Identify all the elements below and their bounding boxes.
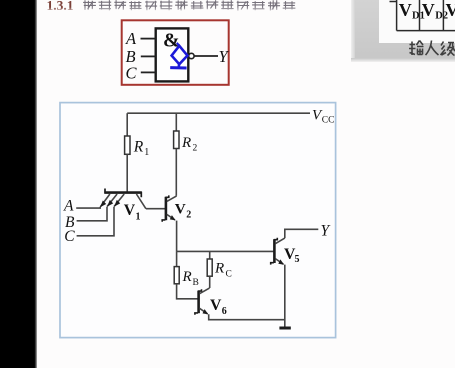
blue border box (60, 103, 336, 338)
svg-text:R: R (214, 261, 224, 277)
svg-text:V: V (175, 200, 186, 217)
svg-text:CC: CC (322, 116, 335, 126)
label V5 (284, 246, 300, 265)
wire phase-splitter node rail (177, 250, 275, 252)
wire V2 emitter down (176, 221, 178, 252)
label R2 (181, 135, 198, 154)
blue pen cursor annotation (170, 43, 187, 68)
svg-text:2: 2 (193, 144, 198, 154)
transistor V5 (271, 238, 285, 265)
svg-text:R: R (133, 139, 144, 156)
gate input wire A (141, 38, 156, 40)
svg-text:1: 1 (144, 147, 149, 158)
inset label VD1 (399, 0, 455, 22)
transistor V1 (multi-emitter) (100, 189, 146, 209)
gate input wire B (141, 55, 156, 57)
label RC (214, 261, 232, 280)
label Vcc (312, 108, 334, 126)
top-right inset: white diagram area (379, 0, 455, 43)
svg-text:C: C (226, 269, 232, 279)
wire Vcc rail (127, 112, 310, 114)
wire RC top lead (209, 251, 211, 259)
wire R2 top lead (175, 113, 177, 131)
red highlight rectangle (122, 20, 229, 85)
wire V1 collector to V2 base (146, 208, 165, 210)
wire input B (77, 207, 107, 221)
svg-text:V: V (124, 202, 136, 219)
title fake CJK glyph strokes (cropped heading characters) (83, 0, 295, 11)
label V6 (210, 297, 227, 317)
gate input wire C (141, 71, 156, 73)
svg-text:C: C (64, 228, 75, 245)
svg-text:6: 6 (222, 306, 227, 317)
svg-text:R: R (182, 269, 192, 285)
wire V5 emitter down (284, 265, 286, 327)
gate body rectangle (156, 28, 189, 81)
svg-text:1: 1 (136, 211, 141, 222)
inset diode box grid lines (390, 0, 455, 31)
svg-text:B: B (193, 278, 199, 288)
top-right inset: gray panel (351, 0, 455, 60)
resistor R1 (125, 136, 130, 154)
wire RB bottom to V6 base (177, 284, 198, 299)
svg-text:V: V (210, 297, 222, 314)
ground (279, 327, 290, 330)
resistor RC (207, 259, 212, 276)
wire RC bottom to V6 collector (209, 276, 211, 288)
title bottom fade (38, 7, 310, 14)
wire input A (76, 207, 100, 208)
left black sidebar (0, 0, 37, 368)
wire V5 collector to output Y (285, 229, 319, 238)
inset caption "shu ru ji" (fake glyphs) (409, 41, 455, 56)
wire R1 bottom lead (126, 154, 128, 191)
label R1 (133, 139, 150, 159)
svg-text:R: R (181, 135, 191, 151)
svg-text:2: 2 (186, 210, 191, 221)
svg-text:Y: Y (321, 223, 331, 240)
wire R1 top lead (126, 113, 128, 136)
label V2 (175, 200, 191, 220)
transistor V6 (195, 288, 210, 315)
resistor RB (174, 267, 179, 284)
wire R2 bottom lead (175, 149, 177, 196)
label RB (182, 269, 199, 288)
svg-text:5: 5 (295, 254, 300, 265)
inverter bubble (189, 53, 194, 58)
wire input C (77, 207, 114, 236)
resistor R2 (174, 131, 179, 149)
wire V6 emitter to ground rail (209, 314, 285, 320)
wire RB top lead (176, 251, 178, 266)
label V1 (124, 202, 141, 223)
gate output wire (194, 55, 218, 57)
transistor V2 (162, 195, 176, 221)
svg-text:A: A (63, 198, 74, 215)
